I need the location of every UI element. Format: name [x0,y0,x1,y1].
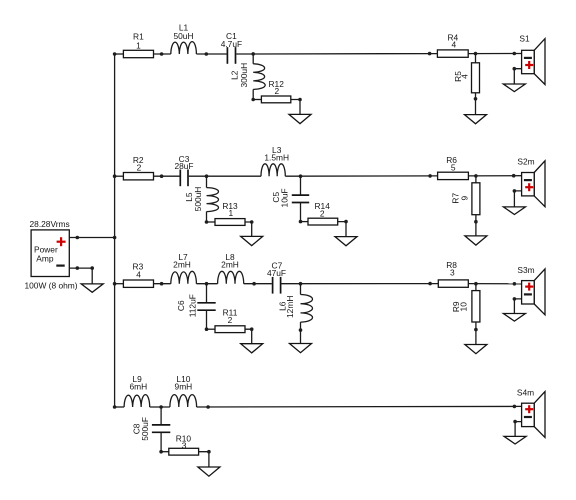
ground L6 [290,344,312,353]
svg-text:4.7uF: 4.7uF [221,39,242,49]
ground R13 [241,236,263,245]
svg-text:L2: L2 [230,70,240,80]
wire L1 to C1 [196,53,226,55]
inductor L5 500uH vertical [184,187,218,212]
svg-text:9mH: 9mH [175,382,193,392]
node L1 right [205,52,209,56]
node R12 right [298,98,302,102]
svg-text:2: 2 [274,86,279,96]
resistor R8 [438,260,468,288]
svg-text:2mH: 2mH [221,260,239,270]
svg-text:500uH: 500uH [193,187,203,212]
node row2 bus [113,174,117,178]
wire C6 bottom [206,310,208,329]
node L6 bottom [299,328,303,332]
resistor R5 vertical [453,63,480,93]
node C5 top junction [299,174,303,178]
node S3m plus terminal [513,282,517,286]
capacitor C7 47uF [267,260,286,293]
wire R11 to ground [245,329,252,344]
node R7 top junction [474,174,478,178]
wire C3 to L3 [189,175,261,177]
wire R4 to S1 [468,53,521,55]
svg-text:112uF: 112uF [187,294,197,317]
node C5 bottom [299,220,303,224]
inductor L8 2mH [218,252,244,284]
svg-text:10: 10 [459,302,469,312]
wire C8 to R10 [161,451,169,453]
node L2 top junction [251,52,255,56]
inductor L6 12mH vertical [278,295,313,323]
node R9 bottom [474,328,478,332]
wire R10 to ground [199,452,209,467]
inductor L2 300uH vertical [230,63,266,90]
wire S1 minus terminal [514,69,521,84]
node L5 bottom [205,220,209,224]
node S1 plus terminal [513,52,517,56]
node R7 bottom [474,220,478,224]
node C6 top junction [205,282,209,286]
svg-text:4: 4 [451,40,456,50]
ground R12 [289,114,311,123]
wire C1 to R4 [236,53,437,55]
speaker S3m [517,265,545,315]
wire R2 to C3 [154,175,180,177]
svg-text:3: 3 [182,441,187,451]
node S2m plus terminal [512,174,516,178]
resistor R4 [437,33,468,58]
node L8 right [252,282,256,286]
svg-text:500uF: 500uF [140,417,150,441]
capacitor C1 4.7uF [221,31,242,64]
ground S3m [503,314,525,322]
svg-text:2: 2 [320,209,325,219]
svg-text:S2m: S2m [517,157,534,167]
node C6 bottom [205,327,209,331]
wire S4m minus terminal [515,422,522,437]
wire C7 to R8 [281,283,438,285]
wire R3 to L7 [154,283,171,285]
wire L5 top [206,176,208,187]
node L10 right [206,405,210,409]
wire amp minus down [91,268,93,284]
inductor L3 1.5mH [261,145,289,176]
resistor R9 vertical [451,291,480,322]
node S4m plus terminal [513,405,517,409]
svg-text:12mH: 12mH [285,296,295,318]
svg-text:1: 1 [228,208,233,218]
node S3m minus [513,297,517,301]
node C8 bottom [159,450,163,454]
wire R6 to S2m [468,175,521,177]
node S2m minus [513,189,517,193]
svg-text:28uF: 28uF [174,161,193,171]
ground R10 [198,467,220,476]
wire L2 top [252,54,254,64]
wire row2 bus to R2 [115,175,124,177]
wire R7 bottom to ground [475,215,477,236]
resistor R3 [123,262,153,288]
wire L2 bottom [252,89,254,99]
speaker S4m [517,387,545,437]
wire L9 to L10 [150,406,170,408]
ground R9 [465,345,487,354]
resistor R2 [123,155,153,180]
wire L2 to R12 [253,99,261,101]
node R11 right [250,327,254,331]
node bus plus junction [113,236,117,240]
wire L6 bottom [300,322,302,343]
ground R14 [335,237,357,246]
node R5 top junction [474,52,478,56]
node R14 right [344,220,348,224]
wire R8 to S3m [468,283,521,285]
node S1 minus [513,67,517,71]
svg-text:5: 5 [451,162,456,172]
wire L3 to R6 [285,175,437,177]
svg-text:1: 1 [136,40,141,50]
resistor R7 vertical [450,183,480,215]
wire C5 to R14 [301,221,309,223]
node S4m minus [513,420,517,424]
svg-text:100W (8 ohm): 100W (8 ohm) [24,280,77,290]
svg-text:2: 2 [137,163,142,173]
svg-text:300uH: 300uH [239,63,249,88]
speaker S1 [519,34,545,85]
resistor R11 [215,308,245,333]
svg-text:47uF: 47uF [267,268,286,278]
svg-text:2mH: 2mH [173,260,191,270]
wire S2m minus terminal [514,191,521,207]
wire S3m minus terminal [514,299,521,314]
ground amp [81,284,103,292]
capacitor C6 112uF vertical [176,294,216,317]
wire L10 to S4m [197,405,522,408]
inductor L10 9mH [170,374,197,407]
ground S1 [503,84,525,92]
wire row4 bus to L9 [115,406,125,408]
wire R5 top [475,54,477,63]
wire C6 to R11 [207,328,216,330]
svg-text:S4m: S4m [517,387,534,397]
ground R5 [465,115,487,124]
svg-text:S3m: S3m [517,265,534,275]
node row4 bus [113,405,117,409]
wire R1 to L1 [154,53,171,55]
capacitor C5 10uF vertical [271,188,309,207]
speaker S2m [517,157,545,207]
node R2 right [160,174,164,178]
node row3 bus [113,282,117,286]
svg-text:4: 4 [460,74,470,79]
wire R9 bottom to ground [475,322,477,345]
wire L6 top [300,284,302,295]
wire R12 to ground [291,100,300,115]
svg-text:1.5mH: 1.5mH [264,153,289,163]
svg-text:6mH: 6mH [129,382,147,392]
wire R5 bottom to ground [475,93,477,115]
wire C8 bottom [160,432,162,451]
resistor R1 [123,32,153,58]
resistor R12 [261,79,290,103]
ground R7 [465,236,487,245]
wire main bus [114,54,116,407]
wire L5 bottom [206,212,208,222]
svg-text:S1: S1 [519,34,530,44]
node L6 top junction [299,282,303,286]
wire R7 top [475,176,477,183]
wire R13 to ground [245,222,252,236]
node R10 right [207,450,211,454]
node amp minus [76,266,80,270]
node amp plus [76,236,80,240]
node R4 left [428,52,432,56]
svg-text:28.28Vrms: 28.28Vrms [30,219,70,229]
wire C8 top [160,407,162,425]
resistor R10 [169,433,199,455]
capacitor C3 28uF [174,154,193,186]
wire L7 to L8 [196,283,217,285]
node R9 top junction [474,282,478,286]
wire L8 to C7 [244,283,272,285]
wire amp minus output [69,267,92,269]
power amp U1 box [31,230,69,277]
node R1 right [160,52,164,56]
node C8 top junction [159,405,163,409]
svg-text:4: 4 [136,269,141,279]
ground R11 [241,344,263,353]
wire row1 bus to R1 [115,53,124,55]
wire C5 top [300,176,302,195]
resistor R13 [215,201,245,226]
inductor L9 6mH [124,374,150,407]
wire R9 top [475,284,477,291]
wire R14 to ground [338,222,346,237]
wire amp plus output [69,237,114,239]
node R8 left [428,282,432,286]
ground S4m [504,436,526,444]
inductor L1 50uH [171,23,197,55]
svg-text:9: 9 [460,196,470,201]
wire C6 top [206,284,208,303]
node L5 top junction [205,174,209,178]
svg-text:3: 3 [450,267,455,277]
svg-text:Amp: Amp [36,254,54,264]
resistor R14 [308,201,338,225]
node amp minus corner [90,266,94,270]
inductor L7 2mH [171,252,197,284]
wire C5 bottom [300,203,302,222]
ground S2m [503,207,525,215]
node R3 right [160,282,164,286]
wire row3 bus to R3 [115,283,124,285]
svg-text:2: 2 [228,315,233,325]
node R5 bottom [474,97,478,101]
node R13 right [250,220,254,224]
node R6 left [428,174,432,178]
node row1 bus [113,52,117,56]
capacitor C8 500uF vertical [131,417,170,441]
svg-text:C6: C6 [176,300,186,311]
svg-text:10uF: 10uF [280,188,290,207]
resistor R6 [438,155,469,180]
svg-text:50uH: 50uH [173,31,193,41]
node L2 bottom [251,98,255,102]
wire L5 to R13 [207,221,216,223]
